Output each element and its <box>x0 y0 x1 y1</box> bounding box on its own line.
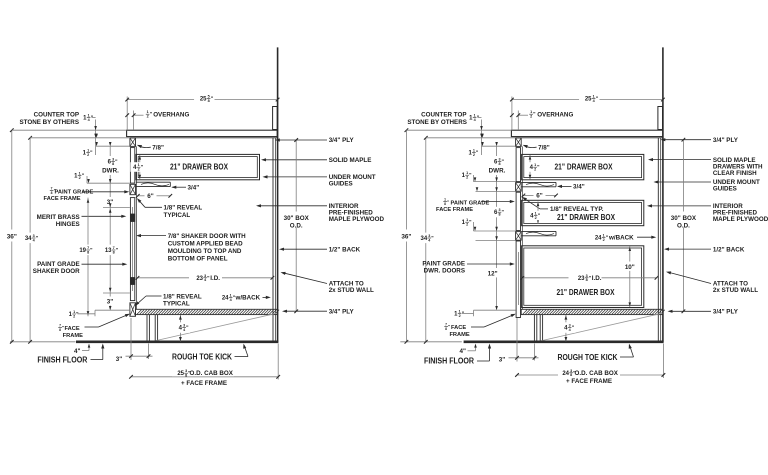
toe kick diagonal brace (left view) <box>152 313 277 341</box>
svg-text:2: 2 <box>73 314 75 318</box>
svg-text:3: 3 <box>569 324 571 328</box>
svg-text:36": 36" <box>7 233 17 240</box>
svg-text:10": 10" <box>625 264 635 271</box>
svg-text:12": 12" <box>488 270 498 277</box>
svg-text:2x STUD WALL: 2x STUD WALL <box>713 287 758 294</box>
svg-text:25: 25 <box>177 371 184 377</box>
svg-text:w/BACK: w/BACK <box>608 234 634 241</box>
svg-text:7: 7 <box>59 323 61 327</box>
svg-text:3: 3 <box>498 208 500 212</box>
svg-text:DWR.: DWR. <box>102 167 119 174</box>
dim 1-1/4 stone thickness (left) <box>95 120 97 138</box>
drawer front panel (left view) <box>130 148 134 184</box>
svg-text:FINISH FLOOR: FINISH FLOOR <box>37 355 87 364</box>
dim row drawer2 bottom (right) <box>474 230 516 232</box>
dim 25-1/4 top width (right view) <box>511 97 513 131</box>
leader 7/8 top rail (left) <box>138 146 151 148</box>
under-mount guide rail 2 (right view) <box>522 230 556 232</box>
drawer front panel 2 (right view) <box>516 192 520 230</box>
dim row drawer3 top (right) <box>476 239 516 241</box>
svg-text:O.D.: O.D. <box>677 222 690 229</box>
toe kick leg front (right view) <box>533 315 535 342</box>
svg-text:3": 3" <box>499 357 505 364</box>
svg-text:36": 36" <box>401 233 411 240</box>
svg-text:4": 4" <box>74 348 80 355</box>
svg-text:8: 8 <box>112 162 114 166</box>
countertop top extension line (right) <box>406 129 511 131</box>
dim 19-7/8 column (left) <box>87 198 89 317</box>
svg-text:OVERHANG: OVERHANG <box>153 111 189 118</box>
svg-text:1/8" REVEAL: 1/8" REVEAL <box>163 293 202 300</box>
svg-text:PAINT GRADE: PAINT GRADE <box>55 189 94 195</box>
dim 6-3/8 drawer2 (right) <box>489 207 506 218</box>
svg-text:TYPICAL: TYPICAL <box>164 212 191 219</box>
svg-text:1: 1 <box>603 233 605 237</box>
svg-text:6": 6" <box>536 193 542 200</box>
dim 4-1/2 drawer1 height (right) <box>529 155 531 179</box>
svg-text:FACE: FACE <box>451 325 466 331</box>
backsplash (right view) <box>658 107 663 130</box>
toe kick leg second (left view) <box>154 315 156 342</box>
svg-text:1: 1 <box>230 294 232 298</box>
svg-text:2: 2 <box>138 168 140 172</box>
svg-text:24: 24 <box>595 235 602 241</box>
svg-text:3: 3 <box>33 234 35 238</box>
svg-text:1: 1 <box>466 218 468 222</box>
dim row 1-1/2 top rail (left) <box>96 145 130 147</box>
svg-text:25: 25 <box>585 96 592 102</box>
svg-text:1: 1 <box>593 94 595 98</box>
drawer box 3 21in (right view) <box>522 246 644 308</box>
svg-text:COUNTER TOP: COUNTER TOP <box>421 112 466 119</box>
svg-text:3: 3 <box>498 158 500 162</box>
svg-text:2: 2 <box>459 314 461 318</box>
dim 1/2 overhang (left view) <box>133 111 135 131</box>
face frame bottom rail (left view) <box>130 303 136 317</box>
svg-text:8: 8 <box>59 328 61 332</box>
svg-text:7: 7 <box>51 186 53 190</box>
svg-text:O.D.: O.D. <box>290 222 303 229</box>
svg-text:25: 25 <box>200 96 207 102</box>
svg-text:1: 1 <box>473 149 475 153</box>
svg-text:21" DRAWER BOX: 21" DRAWER BOX <box>557 213 615 222</box>
dim 4-3/4 toe kick height (left) <box>179 315 181 341</box>
svg-text:8: 8 <box>185 374 187 378</box>
svg-text:2: 2 <box>535 216 537 220</box>
dim row door top (left) <box>103 207 130 209</box>
dim line 34-3/4 vertical (left) <box>29 138 31 342</box>
dim 13-7/8 labels (left) <box>99 245 119 256</box>
leader paint grade face frame (left) <box>83 191 127 193</box>
svg-text:HINGES: HINGES <box>56 221 80 228</box>
cabinet bottom 3/4 ply with hatch (right view) <box>521 309 663 314</box>
leader 3/4 guide rail (left) <box>171 186 176 189</box>
svg-text:1: 1 <box>88 114 90 118</box>
countertop stone slab (left view) <box>127 130 278 136</box>
svg-text:+ FACE FRAME: + FACE FRAME <box>181 380 227 387</box>
svg-text:8: 8 <box>51 191 53 195</box>
dim 24-3/8 OD cab box (right) <box>662 344 664 379</box>
leader 7/8 top rail (right) <box>524 146 537 148</box>
face frame mid rail (left view) <box>130 184 136 194</box>
svg-text:1: 1 <box>87 149 89 153</box>
svg-text:FRAME: FRAME <box>449 332 469 338</box>
drawer front panel 1 (right view) <box>516 148 520 182</box>
dim row drawer1 bottom (right) <box>474 181 516 183</box>
dim 6in rail depth (right) <box>523 194 533 196</box>
svg-text:MAPLE PLYWOOD: MAPLE PLYWOOD <box>329 216 385 223</box>
face frame top rail (right view) <box>516 138 522 147</box>
svg-text:2: 2 <box>466 176 468 180</box>
toe kick leg second (right view) <box>539 315 541 342</box>
svg-text:8: 8 <box>498 162 500 166</box>
svg-text:1: 1 <box>147 110 149 114</box>
svg-text:30" BOX: 30" BOX <box>284 215 310 222</box>
dim 1-1/2 bottom rail (left) <box>94 310 96 316</box>
dim 6-3/8 DWR label (right) <box>487 156 507 175</box>
svg-text:8: 8 <box>87 250 89 254</box>
svg-text:1: 1 <box>459 310 461 314</box>
hinge block lower (left view) <box>131 278 135 285</box>
countertop stone slab (right view) <box>511 130 663 136</box>
svg-text:30" BOX: 30" BOX <box>671 215 697 222</box>
svg-text:CLEAR FINISH: CLEAR FINISH <box>713 170 757 177</box>
dim 12in drawer3 (right) <box>487 268 503 277</box>
svg-text:24: 24 <box>562 371 569 377</box>
svg-text:2: 2 <box>147 115 149 119</box>
svg-text:PAINT GRADE: PAINT GRADE <box>451 201 490 207</box>
svg-text:DWR.: DWR. <box>489 167 506 174</box>
svg-text:3: 3 <box>185 369 187 373</box>
finish floor thick line (right view) <box>464 340 664 343</box>
dim 1-1/2 mid rail (left) <box>86 176 88 183</box>
floor extension line (right view) <box>400 341 462 343</box>
svg-text:34: 34 <box>421 236 428 242</box>
svg-text:8: 8 <box>208 99 210 103</box>
svg-text:3: 3 <box>112 158 114 162</box>
svg-text:FACE FRAME: FACE FRAME <box>44 196 81 202</box>
under-mount guide rail 1 (right view) <box>522 181 556 183</box>
countertop ply deck line (left view) <box>130 137 278 139</box>
countertop ply deck line (right view) <box>516 137 663 139</box>
svg-text:1: 1 <box>534 163 536 167</box>
svg-text:1/8" REVEAL: 1/8" REVEAL <box>164 205 203 212</box>
svg-text:8: 8 <box>586 278 588 282</box>
svg-text:I.D.: I.D. <box>592 275 602 282</box>
wall line (right view) <box>662 47 664 341</box>
svg-text:21" DRAWER BOX: 21" DRAWER BOX <box>557 288 615 297</box>
svg-text:6": 6" <box>147 193 153 200</box>
countertop top extension line (left) <box>12 129 127 131</box>
svg-text:ROUGH TOE KICK: ROUGH TOE KICK <box>558 353 618 362</box>
svg-text:3/4" PLY: 3/4" PLY <box>713 309 739 316</box>
svg-text:3: 3 <box>570 369 572 373</box>
svg-text:3/4": 3/4" <box>573 184 585 191</box>
svg-text:FRAME: FRAME <box>63 333 83 339</box>
svg-text:TYPICAL: TYPICAL <box>163 301 190 308</box>
stack column x496 (right) <box>496 146 498 309</box>
svg-text:3/4" PLY: 3/4" PLY <box>713 137 739 144</box>
svg-text:23: 23 <box>578 276 585 282</box>
svg-text:PAINT GRADE: PAINT GRADE <box>422 261 465 268</box>
svg-text:7/8": 7/8" <box>152 144 164 151</box>
svg-text:3: 3 <box>428 234 430 238</box>
svg-text:GUIDES: GUIDES <box>329 181 353 188</box>
svg-text:5: 5 <box>208 94 210 98</box>
svg-text:7/8": 7/8" <box>538 144 550 151</box>
cabinet interior front edge (right view) <box>521 146 523 309</box>
dim 3in door top (left) <box>104 197 116 206</box>
svg-text:1: 1 <box>79 172 81 176</box>
svg-text:I.D.: I.D. <box>210 275 220 282</box>
svg-text:2: 2 <box>79 176 81 180</box>
svg-text:21" DRAWER BOX: 21" DRAWER BOX <box>555 162 613 171</box>
svg-text:7/8" SHAKER DOOR WITH: 7/8" SHAKER DOOR WITH <box>168 233 246 240</box>
hinge block upper (left view) <box>131 214 135 222</box>
dim 25-3/8 OD cab box (left) <box>277 344 279 380</box>
svg-text:COUNTER TOP: COUNTER TOP <box>34 112 79 119</box>
dim row drawer2 top (right) <box>476 190 516 192</box>
dim 25-5/8 top width (left view) <box>126 97 128 131</box>
svg-text:FACE: FACE <box>65 326 80 332</box>
dim line 36in vertical (right) <box>405 130 407 342</box>
svg-text:21" DRAWER BOX: 21" DRAWER BOX <box>170 162 228 171</box>
svg-text:1: 1 <box>73 310 75 314</box>
face frame rail between drawers 2-3 (right view) <box>516 232 522 241</box>
svg-text:1: 1 <box>138 163 140 167</box>
under-mount guide rail with break (left view) <box>136 181 170 183</box>
dim 3in toe setback (left) <box>130 318 132 360</box>
cabinet interior front edge (left view) <box>136 146 138 309</box>
svg-text:1: 1 <box>535 212 537 216</box>
svg-text:1: 1 <box>530 110 532 114</box>
leader paint grade face frame (right) <box>481 201 512 203</box>
cabinet bottom 3/4 ply with hatch (left view) <box>136 309 278 314</box>
svg-text:": " <box>448 324 450 329</box>
dim 1-1/2 rail 1 (right) <box>473 175 475 182</box>
face frame rail between drawers 1-2 (right view) <box>516 183 522 192</box>
svg-text:8: 8 <box>444 202 446 206</box>
svg-text:GUIDES: GUIDES <box>713 186 737 193</box>
svg-text:": " <box>447 199 449 204</box>
dim row 1-1/2 top rail (right) <box>482 145 516 147</box>
dim 23-3/4 ID (left) <box>138 277 273 279</box>
dim 1/2 overhang (right view) <box>517 111 519 131</box>
drawer front panel 3 (right view) <box>516 241 520 318</box>
leader 3/4 guide rail (right) <box>557 185 562 188</box>
dim 4-3/4 toe kick height (right) <box>565 315 567 341</box>
svg-text:DWR. DOORS: DWR. DOORS <box>424 268 465 275</box>
dim 6in rail depth (left) <box>138 195 145 197</box>
dim 4-1/2 drawer box height (left) <box>139 155 141 179</box>
cabinet back panel (right view) <box>657 138 659 342</box>
countertop deck extension line (left) <box>30 137 130 139</box>
backsplash (left view) <box>273 107 278 130</box>
svg-text:+ FACE FRAME: + FACE FRAME <box>566 378 612 385</box>
svg-text:2: 2 <box>466 223 468 227</box>
svg-text:CUSTOM APPLIED BEAD: CUSTOM APPLIED BEAD <box>168 240 243 247</box>
svg-text:1: 1 <box>444 198 446 202</box>
svg-text:8: 8 <box>113 250 115 254</box>
leader 7/8 face frame (left) <box>85 326 99 328</box>
svg-text:2x STUD WALL: 2x STUD WALL <box>329 287 374 294</box>
dim 1-1/4 stone thickness (right) <box>481 120 483 138</box>
svg-text:4": 4" <box>460 348 466 355</box>
svg-text:ROUGH TOE KICK: ROUGH TOE KICK <box>172 352 232 361</box>
svg-text:SOLID MAPLE: SOLID MAPLE <box>329 157 372 164</box>
dim 3in door bottom (left) <box>104 297 116 306</box>
dim 4-1/2 drawer2 height (right) <box>537 202 539 224</box>
svg-text:2: 2 <box>530 115 532 119</box>
svg-text:7: 7 <box>445 322 447 326</box>
svg-text:FINISH FLOOR: FINISH FLOOR <box>424 357 474 366</box>
toe kick diagonal brace (right view) <box>538 313 662 341</box>
face frame top rail (left view) <box>130 138 136 147</box>
svg-text:2: 2 <box>534 168 536 172</box>
cabinet back panel (left view) <box>272 138 274 342</box>
svg-text:2: 2 <box>473 153 475 157</box>
svg-text:STONE BY OTHERS: STONE BY OTHERS <box>19 119 79 126</box>
dim line 34-3/4 vertical (right) <box>425 138 427 342</box>
shaker door panel (left view) <box>130 198 134 301</box>
svg-text:3": 3" <box>107 298 113 305</box>
dim 1-1/2 bottom (right) <box>473 310 475 316</box>
svg-text:MAPLE PLYWOOD: MAPLE PLYWOOD <box>713 216 768 223</box>
svg-text:7: 7 <box>113 246 115 250</box>
svg-text:STONE BY OTHERS: STONE BY OTHERS <box>407 119 467 126</box>
svg-text:34: 34 <box>25 236 32 242</box>
svg-text:1: 1 <box>474 114 476 118</box>
dim line 36in vertical (left) <box>11 130 13 342</box>
dim 30in box OD column (right) <box>682 140 684 312</box>
finish floor thick line (left view) <box>76 340 278 343</box>
dim row drawer bottom (left) <box>87 182 130 184</box>
svg-text:24: 24 <box>222 296 229 302</box>
svg-text:1/8" REVEAL TYP.: 1/8" REVEAL TYP. <box>550 206 604 213</box>
dim row hinge bottom (left) <box>103 292 130 294</box>
stack column x110 (left) <box>109 146 111 309</box>
svg-text:O.D. CAB BOX: O.D. CAB BOX <box>575 370 619 377</box>
svg-text:BOTTOM OF PANEL: BOTTOM OF PANEL <box>168 255 228 262</box>
svg-text:3: 3 <box>183 324 185 328</box>
svg-text:8: 8 <box>498 213 500 217</box>
svg-text:PAINT GRADE: PAINT GRADE <box>37 261 80 268</box>
svg-text:1/2" BACK: 1/2" BACK <box>329 246 361 253</box>
svg-text:8: 8 <box>445 327 447 331</box>
svg-text:FACE FRAME: FACE FRAME <box>436 207 473 213</box>
svg-text:13: 13 <box>105 248 112 254</box>
dim 3in toe setback (right) <box>516 318 518 362</box>
countertop deck extension line (right) <box>426 137 516 139</box>
drawer box 2 21in (right view) <box>522 200 644 225</box>
svg-text:3: 3 <box>204 274 206 278</box>
svg-text:w/BACK: w/BACK <box>235 295 261 302</box>
svg-text:3/4" PLY: 3/4" PLY <box>329 308 355 315</box>
dim 23-3/8 ID (right) <box>522 277 656 279</box>
dim row cabinet bottom (right) <box>474 309 516 311</box>
wall line (left view) <box>277 47 279 341</box>
svg-text:3: 3 <box>586 274 588 278</box>
svg-text:SHAKER DOOR: SHAKER DOOR <box>33 268 80 275</box>
drawer box 21in (left view) <box>136 154 260 179</box>
svg-text:8: 8 <box>570 373 572 377</box>
toe kick leg front (left view) <box>146 315 148 342</box>
drawer box 1 21in (right view) <box>522 154 644 179</box>
svg-text:OVERHANG: OVERHANG <box>537 111 573 118</box>
svg-text:3/4": 3/4" <box>188 185 200 192</box>
svg-text:7: 7 <box>87 246 89 250</box>
svg-text:19: 19 <box>79 248 86 254</box>
svg-text:O.D. CAB BOX: O.D. CAB BOX <box>190 370 234 377</box>
svg-text:2: 2 <box>87 153 89 157</box>
dim 6-3/8 DWR label (left) <box>100 156 120 175</box>
leader 7/8 face frame (right) <box>471 326 484 328</box>
svg-text:MOULDING TO TOP AND: MOULDING TO TOP AND <box>168 248 242 255</box>
svg-text:1: 1 <box>466 171 468 175</box>
dim 10in drawer3 height (right) <box>629 246 631 307</box>
svg-text:3/4" PLY: 3/4" PLY <box>329 137 355 144</box>
floor extension line (left view) <box>10 341 76 343</box>
svg-text:2: 2 <box>603 238 605 242</box>
dim 30in box OD column (left) <box>295 140 297 311</box>
dim row cabinet bottom (left) <box>95 309 130 311</box>
svg-text:1/2" BACK: 1/2" BACK <box>713 246 745 253</box>
svg-text:3": 3" <box>116 356 122 363</box>
dim 1-1/2 rail 2 (right) <box>473 222 475 231</box>
svg-text:23: 23 <box>196 276 203 282</box>
